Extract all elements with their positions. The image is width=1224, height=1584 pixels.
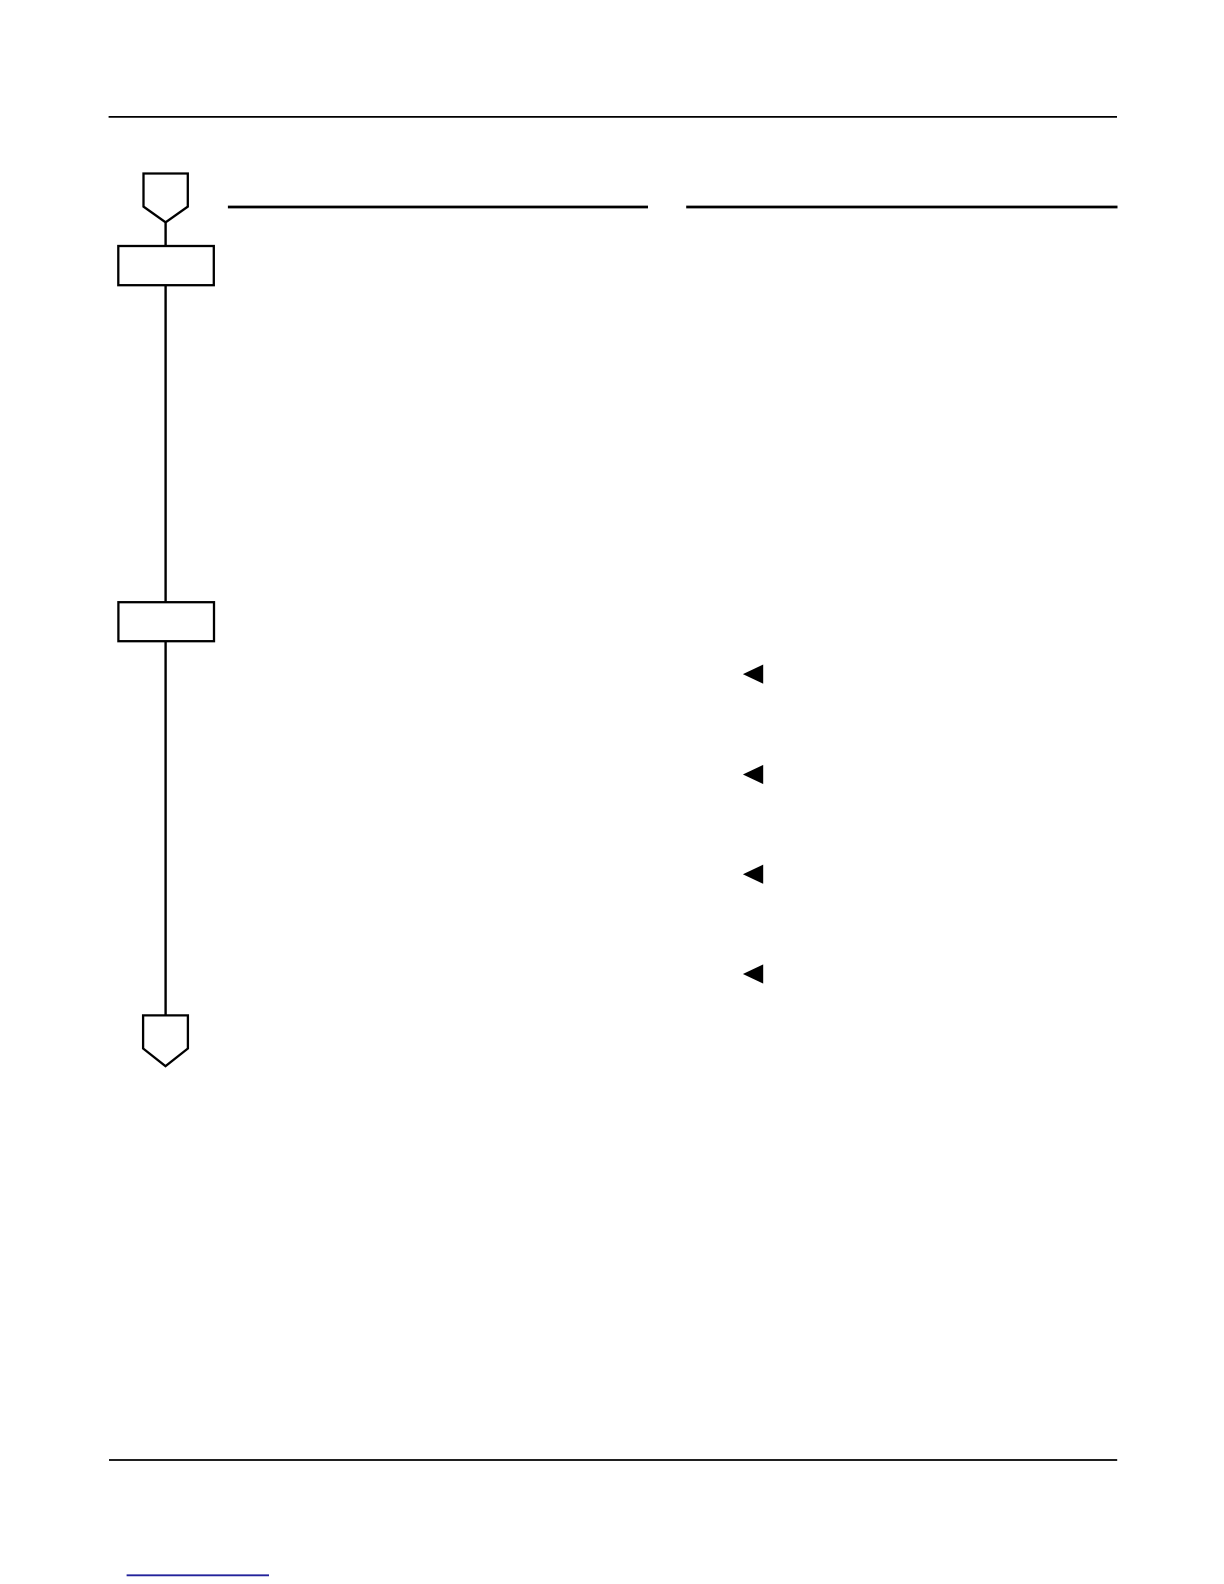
footer link underline (blue) — [127, 1574, 269, 1576]
bullet triangle 2 — [743, 765, 763, 784]
wire box 1 to box 2 — [164, 285, 166, 602]
right column heading underline — [686, 206, 1117, 209]
bottom footer rule — [109, 1459, 1117, 1461]
flowchart off-page connector (bottom pentagon) — [143, 1015, 188, 1066]
bullet triangle 3 — [743, 865, 763, 884]
flowchart off-page connector (top pentagon) — [144, 174, 188, 223]
bullet triangle 1 — [743, 665, 763, 684]
wire pentagon to box 1 — [164, 222, 166, 245]
bullet triangle 4 — [743, 964, 763, 983]
wire box 2 to bottom pentagon — [164, 641, 166, 1015]
flowchart process box 2 — [118, 602, 214, 641]
top header rule — [109, 116, 1117, 118]
flowchart process box 1 — [118, 246, 214, 285]
left column heading underline — [228, 206, 648, 209]
